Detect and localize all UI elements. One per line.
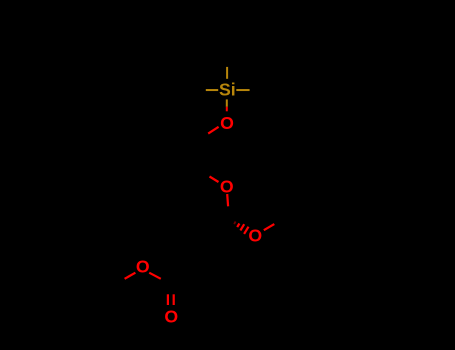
hashed wedge C2-O dash 3 [240,224,244,230]
svg-text:O: O [136,257,150,277]
svg-text:O: O [220,113,234,133]
bond anomericO-CH2 red half (up-right) [264,224,275,230]
hashed wedge C2-O dash 1 (dim, near carbon) [234,222,236,225]
bond ringO-C2 red half (down) [226,194,229,206]
bond Si-CH3 right stub [236,89,249,91]
bond Si-O red half [226,107,228,112]
hashed wedge C2-O dash 2 [237,224,239,228]
bond O-CH2 red half (down-left) [208,127,218,134]
bond Si-CH3 left stub [206,89,218,91]
double bond C=O red half line B (offset) [167,294,169,305]
svg-text:O: O [248,226,262,246]
bond ringO-C red half (up-left) [210,177,219,183]
hashed wedge C2-O dash 4 [244,227,248,234]
bond esterO-CH2 red half (down-left) [125,273,136,279]
svg-text:Si: Si [219,80,236,100]
double bond C=O red half line A (main) [173,294,175,305]
svg-text:O: O [164,306,178,326]
bond Si-C(tBu) upper stub [226,67,228,79]
svg-text:O: O [220,177,234,197]
bond Si-O gold half [226,99,228,106]
bond esterO-C(=O) red half (down-right) [149,273,161,279]
